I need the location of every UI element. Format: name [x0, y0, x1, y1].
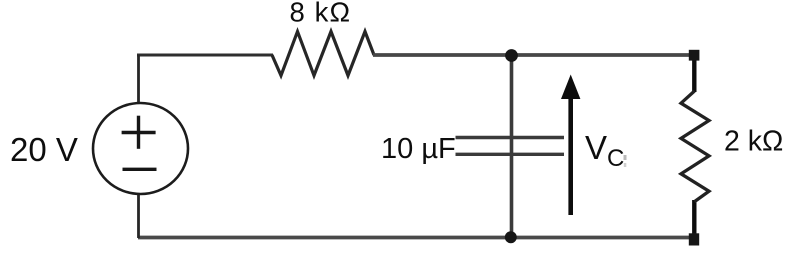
svg-text:20 V: 20 V — [10, 131, 78, 168]
svg-text:2 kΩ: 2 kΩ — [724, 126, 783, 158]
svg-text:V: V — [585, 129, 607, 166]
svg-text:8 kΩ: 8 kΩ — [290, 0, 352, 27]
svg-text:10 µF: 10 µF — [381, 133, 456, 165]
svg-text:C: C — [607, 145, 624, 172]
